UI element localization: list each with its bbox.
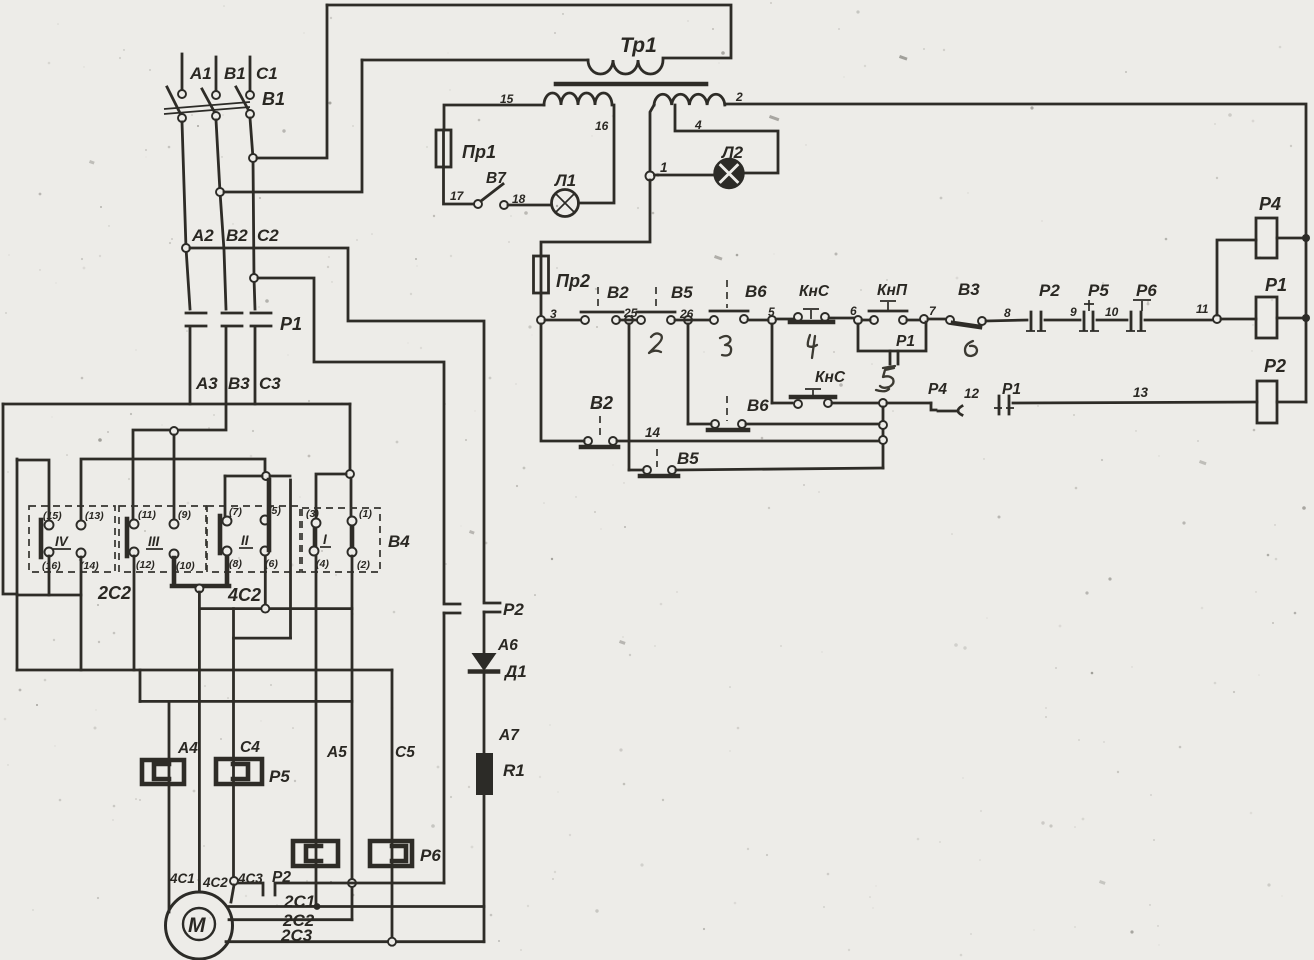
- wire P6 to node 11: [1145, 319, 1213, 322]
- node A1 top contact: [178, 90, 186, 98]
- contact P5 in row: [1084, 312, 1093, 330]
- wire C2 branch to braking contact P2: [258, 278, 444, 602]
- svg-text:Р5: Р5: [1088, 281, 1109, 300]
- bus A3-C3 horizontal: [3, 403, 350, 406]
- relay P6 heater right: [370, 841, 412, 866]
- svg-text:13: 13: [1133, 385, 1149, 400]
- svg-text:Р1: Р1: [896, 333, 915, 350]
- svg-text:В6: В6: [745, 282, 767, 301]
- node link junction on h3: [261, 605, 269, 613]
- wire jog link: [140, 700, 352, 703]
- switch B1 lower contact pole A: [178, 114, 186, 122]
- wire hold junction down: [882, 407, 885, 468]
- wire node3 down to B2 lower: [541, 324, 584, 441]
- wire relay P2 to rail: [1277, 401, 1306, 404]
- node B1 top contact: [212, 91, 220, 99]
- svg-text:R1: R1: [503, 761, 525, 780]
- wire node1 down to fuse Pr2: [541, 180, 650, 256]
- wire phase B down: [216, 120, 226, 309]
- lower branch: pushbutton KnC hold contact: [794, 400, 802, 408]
- switch B4 section III box: [119, 506, 206, 572]
- wire relay P4 to rail: [1277, 237, 1306, 240]
- switch B4 section I box: [302, 508, 380, 572]
- wire bus3 riser to terminal 7: [224, 476, 227, 516]
- svg-text:16: 16: [595, 119, 609, 133]
- svg-text:В1: В1: [224, 64, 246, 83]
- svg-text:КнС: КнС: [799, 283, 830, 300]
- wire line 13 to relay P2: [1013, 402, 1257, 403]
- svg-text:Р1: Р1: [1002, 381, 1021, 398]
- terminal (12): [130, 548, 139, 557]
- relay P5 heater right: [216, 759, 262, 784]
- node on phase B feeding transformer primary: [216, 188, 224, 196]
- wire node7 to switch B3: [928, 318, 946, 321]
- svg-text:9: 9: [1070, 305, 1077, 319]
- switch B4 section I wiper bars: [315, 521, 352, 552]
- wire terminal 12 drop to bus: [133, 556, 136, 670]
- relay coil P2: [1257, 381, 1277, 423]
- svg-text:2С1: 2С1: [283, 892, 315, 911]
- node C2 lower: [250, 274, 258, 282]
- switch B2 linkage dashes: [597, 287, 599, 309]
- node C1 top contact: [246, 91, 254, 99]
- svg-text:(9): (9): [178, 509, 191, 521]
- wire KnP to node 7: [862, 319, 919, 322]
- svg-text:2С3: 2С3: [280, 926, 313, 945]
- wire primary left feed: [362, 59, 588, 62]
- terminal (2): [348, 548, 357, 557]
- switch B4 section IV wiper bar: [39, 520, 44, 557]
- contact P1 lower branch: [999, 396, 1009, 414]
- terminal (15): [45, 521, 54, 530]
- wire secondary 15 lead to fuse Pr1: [444, 105, 544, 130]
- holding contact P1 bypass loop: [858, 322, 926, 351]
- wire top loop to transformer primary right: [327, 5, 731, 58]
- svg-text:2: 2: [735, 90, 743, 104]
- pencil mark 6: [965, 341, 977, 356]
- svg-text:В2: В2: [226, 226, 248, 245]
- node A2: [182, 244, 190, 252]
- svg-text:(1): (1): [359, 508, 372, 520]
- wire phase A down to node A2: [182, 122, 190, 309]
- wire motor lead 4C1 A4: [168, 701, 171, 912]
- svg-text:Р1: Р1: [1265, 275, 1287, 295]
- svg-text:(14): (14): [80, 560, 99, 572]
- svg-text:(3): (3): [306, 508, 319, 520]
- contact P2 in row: [1031, 312, 1041, 330]
- svg-text:I: I: [323, 532, 327, 547]
- svg-text:С4: С4: [240, 739, 260, 756]
- switch B5 contact upper row: [637, 316, 645, 324]
- wire C3 drop to section I: [349, 404, 352, 470]
- svg-text:В7: В7: [486, 170, 507, 187]
- wire junction to terminal 1: [350, 478, 353, 517]
- wire 2C2 line: [229, 918, 352, 921]
- svg-text:Л1: Л1: [553, 171, 576, 190]
- terminal (6): [261, 547, 270, 556]
- switch B2 contact upper row: [581, 316, 589, 324]
- wire fuse Pr1 to switch B7: [444, 167, 475, 204]
- pencil mark 2: [649, 333, 662, 353]
- relay coil P4: [1256, 218, 1277, 258]
- wire U link terminals 10 and 8: [172, 558, 229, 586]
- wire terminal 16 drop: [48, 556, 51, 595]
- node 1: [646, 172, 655, 181]
- svg-text:КнС: КнС: [815, 369, 846, 386]
- svg-text:II: II: [241, 533, 249, 548]
- svg-text:А2: А2: [191, 226, 214, 245]
- switch B7 left contact: [474, 200, 482, 208]
- wire B3 down to switch B4 section III: [133, 327, 226, 520]
- svg-text:В3: В3: [228, 374, 250, 393]
- switch B4 section II wiper bar: [218, 516, 223, 553]
- svg-text:А3: А3: [195, 374, 218, 393]
- relay coil P1: [1256, 297, 1277, 338]
- switch B4 section III wiper bar: [125, 519, 130, 556]
- wire to switch B5: [620, 319, 637, 322]
- svg-text:А7: А7: [498, 727, 520, 744]
- wire line 2 to relay rail: [725, 104, 1306, 402]
- node junction B2 line: [879, 436, 887, 444]
- pushbutton KnP start: [870, 316, 878, 324]
- wire secondary2 left lead to node 1: [650, 105, 654, 172]
- wire bus under B4: [17, 669, 392, 672]
- terminal (11): [130, 520, 139, 529]
- node C5 junction on 2C3: [388, 938, 396, 946]
- wire A4 tap from bus: [139, 670, 142, 701]
- transformer Tp1 primary winding: [588, 60, 663, 74]
- switch B7 blade: [481, 184, 503, 201]
- svg-text:М: М: [188, 914, 206, 937]
- svg-text:С5: С5: [395, 744, 415, 761]
- wire A2 branch to braking rectifier: [190, 248, 484, 601]
- svg-text:17: 17: [450, 189, 465, 203]
- relay P6 heater left: [293, 841, 338, 866]
- wire junction 25 down: [628, 324, 631, 470]
- node 7: [920, 315, 928, 323]
- wire C to top loop: [257, 5, 327, 158]
- contactor P1 pole B: [222, 313, 242, 326]
- svg-text:Д1: Д1: [503, 662, 527, 681]
- wire node5 branch to KnC lower: [772, 402, 792, 405]
- svg-text:В5: В5: [671, 283, 693, 302]
- wire bus3 drop below B4: [289, 480, 292, 638]
- svg-text:(8): (8): [229, 558, 242, 570]
- wire P2 to P5: [1045, 319, 1080, 322]
- contact P2 braking near motor: [238, 883, 444, 895]
- transformer Tp1 secondary winding 15-16: [544, 93, 612, 105]
- node on phase C feeding transformer primary: [249, 154, 257, 162]
- motor M inner: [183, 908, 215, 940]
- node junction 25: [625, 316, 633, 324]
- wiper riser terminal 5: [267, 480, 272, 550]
- knife switch B1 incoming phase stub C1: [249, 57, 252, 91]
- svg-text:11: 11: [1196, 302, 1209, 316]
- svg-text:(13): (13): [85, 510, 104, 522]
- wire A3 down to bus: [189, 327, 192, 404]
- svg-text:IV: IV: [55, 534, 69, 549]
- svg-text:6: 6: [850, 304, 857, 318]
- wire C3 down: [254, 327, 257, 404]
- transformer Tp1 core: [556, 82, 706, 87]
- terminal (1): [348, 517, 357, 526]
- wire C4 drop from h3: [232, 609, 235, 877]
- lamp L1: [552, 190, 579, 217]
- svg-text:(11): (11): [138, 509, 156, 521]
- switch B5 lower contact: [643, 466, 651, 474]
- wire relay P1 to rail: [1277, 317, 1306, 320]
- node junction hold line: [879, 399, 887, 407]
- wire node5 down: [771, 324, 774, 403]
- svg-text:2С2: 2С2: [97, 583, 131, 603]
- node rail P4: [1302, 234, 1310, 242]
- terminal (8): [223, 547, 232, 556]
- contactor P1 pole A: [186, 313, 206, 326]
- switch B4 section II box: [207, 506, 300, 572]
- svg-text:(15): (15): [43, 510, 62, 522]
- svg-text:А1: А1: [189, 64, 212, 83]
- node bus3 junction: [262, 472, 270, 480]
- svg-text:А6: А6: [497, 637, 518, 654]
- switch B7 right contact: [500, 201, 508, 209]
- diode D1: [483, 612, 486, 653]
- terminal (14): [77, 549, 86, 558]
- svg-text:(16): (16): [42, 560, 61, 572]
- switch B6 lower contact: [711, 420, 719, 428]
- switch B5 linkage dashes: [655, 287, 657, 309]
- svg-text:(2): (2): [357, 559, 370, 571]
- svg-text:В6: В6: [747, 396, 769, 415]
- wire terminal 15 loop to left rail: [17, 460, 49, 520]
- wire C5 drop: [391, 670, 394, 938]
- svg-text:(7): (7): [229, 506, 242, 518]
- wire node11 to relay P1: [1221, 318, 1256, 321]
- wire junction down to terminal 9: [173, 435, 176, 520]
- wire node3 to switch B2: [545, 319, 581, 322]
- wire KnC lower to junction: [832, 402, 879, 405]
- svg-text:Р2: Р2: [503, 600, 524, 619]
- svg-text:12: 12: [964, 386, 980, 401]
- svg-text:4С1: 4С1: [169, 871, 195, 886]
- svg-text:10: 10: [1105, 305, 1119, 319]
- wire terminal 2 riser to 2C2: [351, 556, 354, 920]
- svg-text:III: III: [148, 534, 160, 549]
- wire motor lead 4C2: [198, 592, 201, 892]
- svg-text:(12): (12): [136, 559, 155, 571]
- node braking tap junction: [348, 879, 356, 887]
- lamp L2 signal: [715, 159, 744, 188]
- wire lamp L1 to secondary 16 lead: [579, 105, 615, 203]
- switch B1 blade pole C: [236, 87, 249, 111]
- svg-text:4С2: 4С2: [227, 585, 261, 605]
- node 5: [768, 316, 776, 324]
- wire node1 to lamp L2: [655, 174, 715, 177]
- wire junction 26 down: [687, 324, 690, 424]
- pushbutton KnC stop upper: [794, 313, 802, 321]
- svg-text:Р6: Р6: [420, 846, 441, 865]
- pencil mark 3: [720, 336, 731, 356]
- wire P5 to P6: [1097, 319, 1127, 322]
- svg-text:(6): (6): [265, 558, 278, 570]
- terminal (5): [261, 516, 270, 525]
- switch B1 lower contact pole B: [212, 112, 220, 120]
- transformer Tp1 secondary winding 2-4: [654, 94, 725, 105]
- svg-text:8: 8: [1004, 306, 1011, 320]
- fuse Pr2: [534, 256, 549, 293]
- wire junction26 to B6 lower: [688, 423, 711, 426]
- terminal (13): [77, 521, 86, 530]
- wire braking riser with contact P2 upper: [443, 613, 446, 883]
- relay P5 heater left: [142, 760, 184, 784]
- wire fuse Pr2 to node 3: [540, 293, 543, 316]
- switch B1 blade pole B: [202, 89, 215, 113]
- wire junction to contact P4: [887, 402, 931, 405]
- node A5 junction on 2C1: [314, 903, 321, 910]
- wire left rail down: [3, 404, 17, 594]
- knife switch B1 incoming phase stub B1: [215, 57, 218, 91]
- svg-text:Р4: Р4: [1259, 194, 1281, 214]
- wire diode to resistor R1: [483, 671, 486, 753]
- svg-text:(10): (10): [176, 560, 195, 572]
- wire 2C1 line: [229, 905, 484, 908]
- node 3: [537, 316, 545, 324]
- svg-text:Р2: Р2: [1039, 281, 1060, 300]
- contact P2 second pole feet: [484, 603, 500, 612]
- svg-text:В4: В4: [388, 532, 410, 551]
- wire 2C3 line: [226, 940, 484, 943]
- node 11: [1213, 315, 1221, 323]
- svg-text:Пр2: Пр2: [556, 271, 590, 291]
- switch B6 linkage dashes: [726, 280, 728, 308]
- wire B to transformer primary left: [224, 60, 362, 192]
- svg-text:Р2: Р2: [1264, 356, 1286, 376]
- svg-text:В2: В2: [590, 393, 613, 413]
- terminal (7): [223, 517, 232, 526]
- svg-text:В1: В1: [262, 89, 285, 109]
- svg-text:(4): (4): [316, 558, 329, 570]
- wire left outer rail of B4 block: [16, 459, 19, 670]
- node junction C3 drop: [346, 470, 354, 478]
- wire KnC to node 6: [829, 317, 853, 320]
- contact P6 in row: [1131, 312, 1141, 330]
- wire junction to terminal 3: [316, 474, 346, 519]
- terminal (9): [170, 520, 179, 529]
- terminal (16): [45, 548, 54, 557]
- wire secondary2 tap 4 to lamp L2: [675, 105, 778, 173]
- wire joint under IV: [17, 594, 81, 597]
- svg-text:С2: С2: [257, 226, 279, 245]
- wire to switch B6: [675, 319, 710, 322]
- wire junction25 to B5 lower: [629, 469, 643, 472]
- switch B6 contact upper row: [710, 316, 718, 324]
- svg-text:В5: В5: [677, 449, 699, 468]
- contactor P1 pole C: [251, 313, 271, 326]
- wire B2 lower to junction line 14: [617, 440, 879, 443]
- terminal (10): [170, 550, 179, 559]
- knife switch B1 incoming phase stub A1: [181, 54, 184, 90]
- node 4C2 tap: [195, 585, 203, 593]
- switch B1 lower contact pole C: [246, 110, 254, 118]
- switch B3 contact: [946, 316, 954, 324]
- terminal (4): [310, 547, 319, 556]
- wire link h3 under B4: [199, 607, 352, 610]
- node junction 26: [684, 316, 692, 324]
- svg-text:А4: А4: [177, 740, 198, 757]
- wire B7 to lamp L1: [508, 204, 551, 207]
- contact P4 lower branch: [931, 403, 936, 410]
- switch B4 section IV box: [29, 506, 115, 572]
- svg-text:Р5: Р5: [269, 767, 290, 786]
- svg-text:Тр1: Тр1: [620, 34, 657, 57]
- svg-text:Пр1: Пр1: [462, 142, 496, 162]
- svg-text:Р4: Р4: [928, 381, 947, 398]
- motor M outer: [166, 892, 233, 959]
- svg-text:В2: В2: [607, 283, 629, 302]
- node junction on B3 wire: [170, 427, 178, 435]
- node 4C3 braking tap: [230, 877, 238, 885]
- node junction B6 line: [879, 421, 887, 429]
- wire phase C down: [250, 118, 255, 309]
- wire 4C3 into motor: [231, 885, 234, 902]
- node rail P1: [1302, 314, 1310, 322]
- wire terminal 6 drop: [264, 556, 267, 609]
- svg-text:В3: В3: [958, 280, 980, 299]
- wire terminal 14 drop to bus: [80, 557, 83, 670]
- wire link h5: [234, 637, 291, 640]
- wire B6 lower to hold junction: [746, 423, 879, 426]
- wire R1 down to 2C3 line: [483, 795, 486, 942]
- svg-text:КнП: КнП: [877, 282, 908, 299]
- resistor R1: [476, 753, 493, 795]
- svg-text:Л2: Л2: [720, 143, 744, 162]
- wire node11 up to relay P4: [1217, 240, 1256, 315]
- fuse Pr1: [436, 130, 451, 167]
- svg-text:С3: С3: [259, 374, 281, 393]
- switch B1 mechanical tie bar: [164, 102, 250, 114]
- wire B3 to contact P2: [986, 320, 1027, 321]
- switch B1 blade pole A: [167, 87, 181, 115]
- wire node5 to button KnC: [748, 319, 794, 320]
- wire terminal 4 drop A5: [315, 556, 318, 906]
- svg-text:С1: С1: [256, 64, 278, 83]
- pencil mark 4: [808, 335, 817, 358]
- svg-text:4С2: 4С2: [202, 875, 228, 890]
- wire B5 lower to hold junction: [676, 468, 883, 470]
- svg-text:Р1: Р1: [280, 314, 302, 334]
- wire bus3: [225, 475, 290, 478]
- pencil mark 5: [876, 366, 895, 391]
- svg-text:1: 1: [660, 160, 668, 175]
- node 6: [854, 316, 862, 324]
- svg-text:14: 14: [645, 425, 661, 440]
- wire bus2 terminal 13 to section II: [81, 459, 265, 520]
- svg-text:Р6: Р6: [1136, 281, 1157, 300]
- terminal (3): [312, 519, 321, 528]
- switch B2 lower contact line 14: [584, 437, 592, 445]
- svg-text:А5: А5: [326, 744, 347, 761]
